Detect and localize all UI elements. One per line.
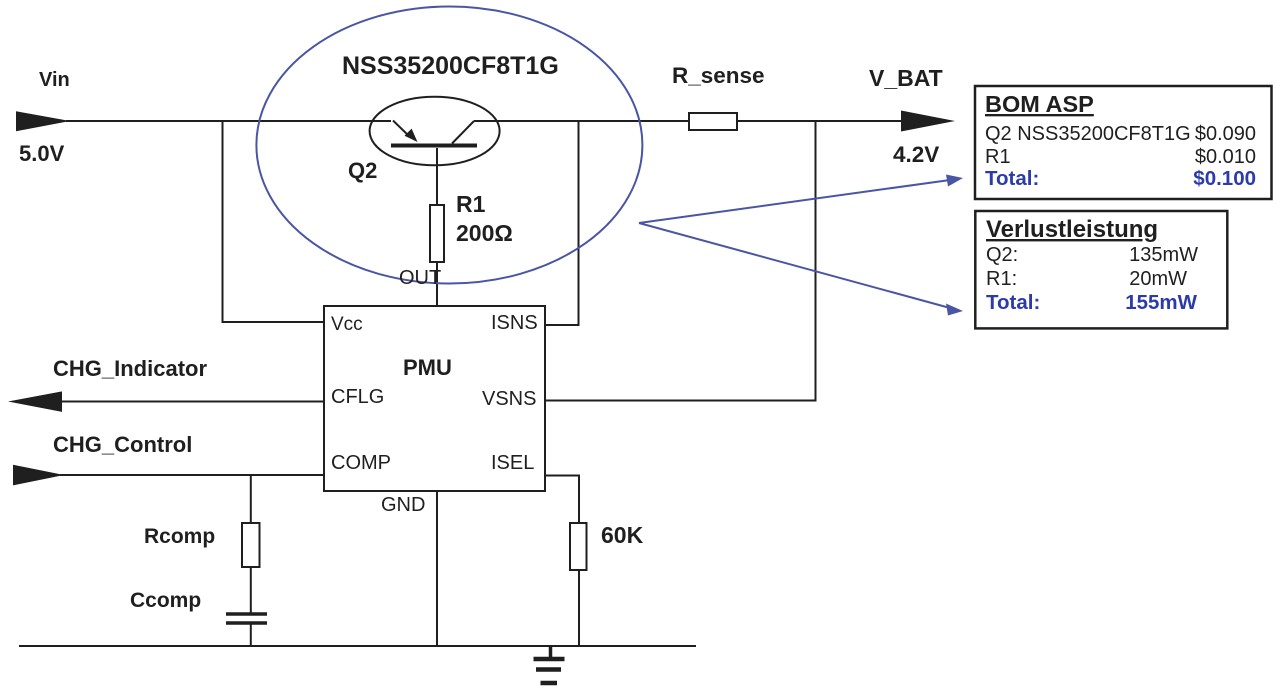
svg-text:NSS35200CF8T1G: NSS35200CF8T1G	[342, 52, 559, 80]
svg-text:4.2V: 4.2V	[893, 142, 939, 167]
svg-text:Q2 NSS35200CF8T1G: Q2 NSS35200CF8T1G	[985, 123, 1191, 145]
svg-text:R1:: R1:	[986, 268, 1017, 290]
svg-text:Q2: Q2	[348, 158, 377, 183]
svg-text:$0.090: $0.090	[1195, 123, 1256, 145]
svg-text:155mW: 155mW	[1125, 291, 1197, 314]
svg-text:R_sense: R_sense	[672, 63, 765, 88]
svg-text:135mW: 135mW	[1129, 244, 1198, 266]
svg-text:$0.100: $0.100	[1193, 167, 1256, 190]
svg-text:R1: R1	[456, 191, 486, 217]
svg-text:Rcomp: Rcomp	[144, 525, 215, 548]
svg-text:200Ω: 200Ω	[456, 220, 513, 246]
svg-text:ISEL: ISEL	[491, 452, 534, 474]
svg-text:COMP: COMP	[331, 452, 391, 474]
svg-text:Vin: Vin	[39, 69, 70, 91]
svg-text:Ccomp: Ccomp	[130, 589, 201, 612]
svg-text:20mW: 20mW	[1129, 268, 1187, 290]
svg-text:OUT: OUT	[399, 267, 441, 289]
svg-text:CHG_Indicator: CHG_Indicator	[53, 356, 207, 381]
svg-text:Total:: Total:	[985, 167, 1039, 190]
svg-text:VSNS: VSNS	[482, 388, 536, 410]
svg-text:BOM ASP: BOM ASP	[985, 91, 1094, 117]
svg-text:ISNS: ISNS	[491, 312, 538, 334]
svg-text:R1: R1	[985, 146, 1011, 168]
svg-text:V_BAT: V_BAT	[869, 65, 943, 91]
svg-text:5.0V: 5.0V	[19, 141, 65, 166]
svg-text:Verlustleistung: Verlustleistung	[986, 216, 1158, 243]
svg-text:Vcc: Vcc	[331, 314, 363, 335]
svg-text:$0.010: $0.010	[1195, 146, 1256, 168]
svg-text:Q2:: Q2:	[986, 244, 1018, 266]
svg-text:Total:: Total:	[986, 291, 1040, 314]
svg-text:GND: GND	[381, 494, 425, 516]
svg-text:CFLG: CFLG	[331, 386, 384, 408]
svg-text:60K: 60K	[601, 522, 644, 548]
svg-text:PMU: PMU	[403, 355, 452, 380]
svg-text:CHG_Control: CHG_Control	[53, 432, 192, 457]
